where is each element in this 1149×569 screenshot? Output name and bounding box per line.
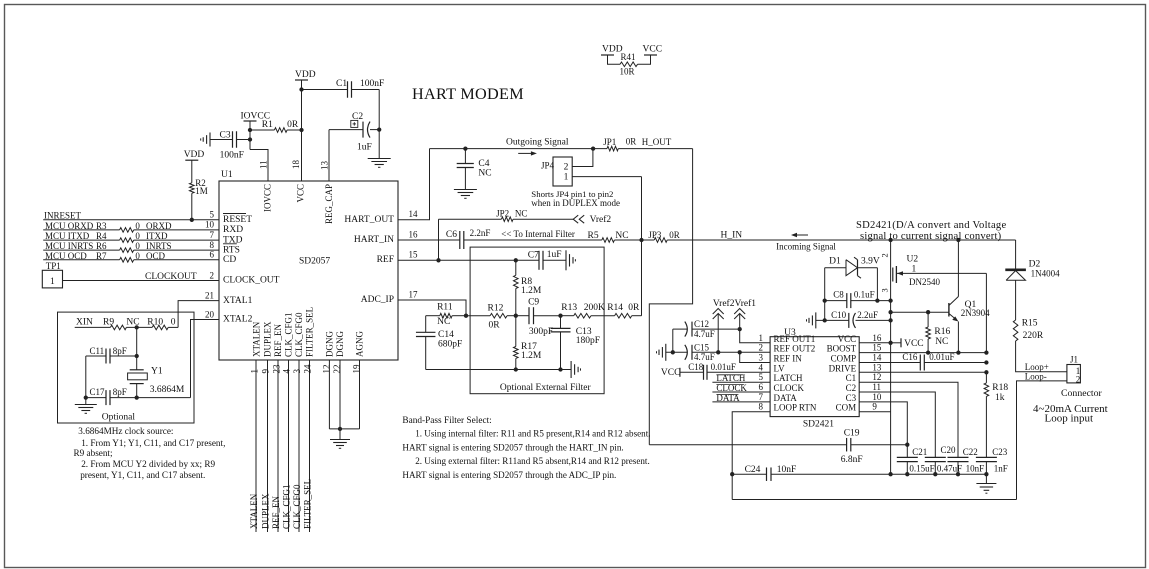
svg-text:REG_CAP: REG_CAP (324, 184, 334, 224)
svg-text:7: 7 (759, 392, 764, 402)
svg-text:2: 2 (1076, 375, 1081, 385)
svg-text:0R: 0R (669, 230, 680, 240)
svg-text:9: 9 (261, 369, 271, 374)
svg-text:DATA: DATA (774, 393, 798, 403)
svg-text:MCU OCD: MCU OCD (45, 251, 87, 261)
svg-text:when in DUPLEX mode: when in DUPLEX mode (531, 198, 620, 208)
svg-text:U2: U2 (907, 254, 919, 264)
svg-text:R16: R16 (934, 327, 950, 337)
svg-text:CLK_CFG0: CLK_CFG0 (292, 484, 302, 529)
svg-text:CD: CD (223, 255, 236, 265)
svg-text:1.2M: 1.2M (521, 286, 542, 296)
svg-text:MCU ORXD: MCU ORXD (45, 221, 94, 231)
svg-text:100nF: 100nF (360, 79, 384, 89)
svg-text:present, Y1, C11, and C17 abse: present, Y1, C11, and C17 absent. (80, 470, 205, 480)
svg-text:HART signal is entering SD2057: HART signal is entering SD2057 through t… (402, 442, 623, 452)
svg-text:ITXD: ITXD (146, 231, 168, 241)
svg-text:DGNG: DGNG (325, 331, 335, 357)
svg-text:C11: C11 (90, 346, 105, 356)
svg-text:0R: 0R (489, 320, 501, 330)
svg-text:2N3904: 2N3904 (961, 308, 990, 318)
svg-text:2. From MCU Y2 divided by xx;: 2. From MCU Y2 divided by xx; R9 (81, 459, 215, 469)
svg-text:R12: R12 (488, 304, 504, 314)
svg-text:CLOCK: CLOCK (774, 383, 805, 393)
svg-text:10: 10 (872, 392, 882, 402)
svg-text:DUPLEX: DUPLEX (263, 321, 273, 357)
svg-text:10: 10 (205, 220, 215, 230)
svg-text:C8: C8 (833, 289, 844, 299)
svg-text:200K: 200K (584, 303, 605, 313)
svg-text:0.01uF: 0.01uF (929, 352, 954, 362)
svg-text:2: 2 (759, 343, 764, 353)
svg-text:<< To Internal Filter: << To Internal Filter (501, 229, 575, 239)
svg-text:0.1uF: 0.1uF (854, 289, 875, 299)
svg-text:1uF: 1uF (547, 250, 562, 260)
svg-text:R7: R7 (96, 251, 107, 261)
svg-text:12: 12 (872, 372, 881, 382)
svg-text:8pF: 8pF (113, 346, 127, 356)
svg-text:14: 14 (409, 209, 419, 219)
svg-text:8: 8 (759, 402, 764, 412)
svg-text:CLK_CFG1: CLK_CFG1 (284, 312, 294, 357)
svg-text:R13: R13 (561, 303, 577, 313)
svg-text:H_IN: H_IN (721, 231, 743, 241)
svg-text:C20: C20 (941, 445, 957, 455)
svg-text:3: 3 (292, 369, 302, 374)
svg-text:18: 18 (291, 160, 301, 170)
svg-text:3: 3 (880, 288, 890, 292)
svg-text:C7: C7 (528, 250, 539, 260)
svg-text:3.9V: 3.9V (861, 257, 880, 267)
svg-text:REF OUT1: REF OUT1 (774, 334, 816, 344)
svg-text:C15: C15 (694, 342, 710, 352)
svg-text:HART signal is entering SD2057: HART signal is entering SD2057 through t… (402, 470, 616, 480)
svg-text:10R: 10R (620, 67, 635, 77)
svg-text:R15: R15 (1022, 319, 1038, 329)
svg-text:REF IN: REF IN (774, 354, 803, 364)
svg-text:R4: R4 (96, 231, 107, 241)
svg-text:100nF: 100nF (220, 151, 244, 161)
svg-text:10nF: 10nF (966, 463, 985, 473)
svg-text:SD2057: SD2057 (299, 257, 330, 267)
svg-text:XTALEN: XTALEN (249, 493, 259, 529)
svg-text:0.47uF: 0.47uF (937, 463, 962, 473)
svg-text:Loop-: Loop- (1025, 371, 1047, 381)
svg-text:NC: NC (437, 317, 450, 327)
svg-text:Vref2: Vref2 (590, 214, 612, 225)
svg-text:3: 3 (759, 353, 764, 363)
svg-text:NC: NC (615, 231, 628, 241)
svg-text:4: 4 (759, 362, 764, 372)
svg-text:signal to current signal conve: signal to current signal convert) (860, 231, 1002, 242)
svg-text:XTAL1: XTAL1 (223, 296, 253, 306)
svg-text:HART_IN: HART_IN (354, 235, 394, 245)
svg-text:0: 0 (135, 221, 140, 231)
svg-text:0: 0 (135, 231, 140, 241)
svg-text:XTAL2: XTAL2 (223, 315, 253, 325)
svg-text:6: 6 (210, 250, 215, 260)
svg-text:RESET: RESET (223, 215, 252, 225)
svg-text:JP3: JP3 (648, 230, 662, 240)
svg-text:1. Using internal filter: R11: 1. Using internal filter: R11 and R5 pre… (415, 429, 650, 439)
svg-text:0.15uF: 0.15uF (909, 463, 934, 473)
svg-text:Incoming Signal: Incoming Signal (776, 242, 836, 252)
svg-text:BOOST: BOOST (827, 344, 857, 354)
svg-text:HART MODEM: HART MODEM (412, 85, 524, 103)
svg-text:2: 2 (564, 163, 569, 173)
svg-text:1: 1 (50, 277, 55, 287)
svg-text:C19: C19 (844, 429, 860, 439)
svg-text:5: 5 (210, 210, 215, 220)
svg-text:ORXD: ORXD (146, 221, 172, 231)
svg-text:11: 11 (259, 160, 269, 169)
svg-text:REF_EN: REF_EN (271, 495, 281, 529)
svg-text:R5: R5 (588, 231, 599, 241)
svg-text:13: 13 (872, 362, 882, 372)
svg-text:LATCH: LATCH (774, 373, 804, 383)
svg-text:D1: D1 (829, 257, 841, 267)
svg-text:VCC: VCC (643, 45, 663, 55)
svg-text:1k: 1k (995, 393, 1005, 403)
svg-text:JP4: JP4 (541, 161, 555, 171)
svg-text:AGNG: AGNG (355, 331, 365, 357)
svg-text:HART_OUT: HART_OUT (344, 215, 394, 225)
svg-text:R10: R10 (147, 317, 163, 327)
svg-text:NC: NC (478, 169, 491, 179)
svg-text:SD2421(D/A convert and Voltage: SD2421(D/A convert and Voltage (856, 220, 1006, 231)
svg-text:R14: R14 (607, 303, 623, 313)
svg-text:1: 1 (250, 369, 260, 374)
svg-text:VCC: VCC (661, 368, 681, 378)
svg-text:8pF: 8pF (113, 387, 127, 397)
svg-text:4.7uF: 4.7uF (694, 352, 715, 362)
svg-text:H_OUT: H_OUT (642, 137, 672, 147)
svg-text:INRESET: INRESET (44, 211, 82, 221)
svg-text:FILTER_SEL: FILTER_SEL (303, 479, 313, 529)
svg-text:13: 13 (320, 161, 330, 171)
svg-text:1: 1 (912, 264, 917, 274)
svg-text:VDD: VDD (295, 70, 316, 80)
svg-text:C9: C9 (528, 297, 539, 307)
svg-text:1N4004: 1N4004 (1031, 269, 1060, 279)
svg-text:TP1: TP1 (46, 261, 61, 271)
svg-text:6: 6 (759, 382, 764, 392)
svg-text:C24: C24 (745, 465, 761, 475)
svg-text:LV: LV (774, 363, 786, 373)
svg-text:0: 0 (171, 317, 176, 327)
svg-text:4: 4 (282, 369, 292, 374)
svg-text:REF_EN: REF_EN (273, 323, 283, 357)
svg-text:J1: J1 (1070, 354, 1078, 364)
svg-text:2: 2 (210, 270, 215, 280)
svg-text:15: 15 (409, 250, 419, 260)
svg-text:REF: REF (377, 255, 394, 265)
svg-text:1: 1 (564, 173, 569, 183)
svg-text:680pF: 680pF (438, 339, 462, 349)
svg-text:CLK_CFG0: CLK_CFG0 (294, 312, 304, 357)
svg-text:C1: C1 (846, 373, 857, 383)
svg-text:1nF: 1nF (994, 463, 1008, 473)
svg-text:R1: R1 (262, 120, 273, 130)
svg-text:VCC: VCC (296, 184, 306, 203)
svg-text:R41: R41 (621, 52, 636, 62)
svg-text:4.7uF: 4.7uF (694, 329, 715, 339)
svg-text:NC: NC (935, 337, 948, 347)
svg-text:0: 0 (135, 251, 140, 261)
svg-text:1uF: 1uF (357, 143, 372, 153)
svg-text:7: 7 (210, 230, 215, 240)
svg-text:1: 1 (759, 333, 764, 343)
svg-text:180pF: 180pF (576, 336, 600, 346)
svg-text:C3: C3 (846, 393, 857, 403)
svg-text:C2: C2 (352, 112, 363, 122)
svg-text:JP2: JP2 (496, 209, 509, 219)
svg-text:C22: C22 (963, 447, 978, 457)
svg-text:11: 11 (872, 382, 881, 392)
svg-text:220R: 220R (1023, 331, 1044, 341)
svg-text:16: 16 (409, 229, 419, 239)
svg-text:LOOP RTN: LOOP RTN (774, 403, 817, 413)
svg-text:RXD: RXD (223, 225, 243, 235)
svg-text:C10: C10 (831, 310, 847, 320)
svg-text:MCU INRTS: MCU INRTS (45, 241, 93, 251)
svg-text:0R: 0R (287, 120, 299, 130)
svg-text:SD2421: SD2421 (803, 420, 834, 430)
svg-text:XIN: XIN (76, 317, 93, 327)
svg-text:C6: C6 (446, 230, 457, 240)
svg-text:23: 23 (272, 364, 282, 374)
svg-text:5: 5 (759, 372, 764, 382)
svg-text:20: 20 (205, 309, 215, 319)
svg-text:DUPLEX: DUPLEX (261, 493, 271, 529)
svg-text:R6: R6 (96, 241, 107, 251)
svg-text:2. Using external filter: R11a: 2. Using external filter: R11and R5 abse… (415, 456, 650, 466)
svg-text:15: 15 (872, 343, 882, 353)
svg-text:2: 2 (880, 253, 890, 257)
svg-text:8: 8 (210, 240, 215, 250)
svg-text:Optional External Filter: Optional External Filter (500, 383, 592, 393)
svg-text:C17: C17 (90, 387, 106, 397)
svg-text:IOVCC: IOVCC (263, 184, 273, 212)
svg-text:C21: C21 (912, 447, 927, 457)
svg-text:2.2uF: 2.2uF (857, 310, 878, 320)
svg-text:RTS: RTS (223, 245, 240, 255)
svg-text:R11: R11 (437, 303, 453, 313)
svg-text:R9 absent;: R9 absent; (74, 448, 113, 458)
svg-text:14: 14 (872, 353, 882, 363)
svg-text:10nF: 10nF (777, 465, 797, 475)
svg-text:ADC_IP: ADC_IP (361, 295, 394, 305)
svg-text:0.01uF: 0.01uF (711, 362, 736, 372)
svg-text:INRTS: INRTS (146, 241, 171, 251)
svg-text:C4: C4 (478, 159, 489, 169)
svg-text:C18: C18 (688, 362, 704, 372)
svg-text:JP1: JP1 (603, 137, 616, 147)
svg-text:XTALEN: XTALEN (252, 321, 262, 357)
svg-text:24: 24 (303, 364, 313, 374)
svg-text:1.2M: 1.2M (521, 351, 542, 361)
svg-text:C16: C16 (902, 352, 918, 362)
svg-text:Optional: Optional (102, 413, 136, 423)
svg-text:Outgoing Signal: Outgoing Signal (506, 138, 569, 148)
svg-text:0R: 0R (626, 136, 637, 146)
svg-text:2.2nF: 2.2nF (470, 228, 491, 238)
svg-text:C3: C3 (220, 130, 231, 140)
svg-text:CLOCKOUT: CLOCKOUT (145, 272, 197, 282)
svg-text:VDD: VDD (184, 150, 205, 160)
svg-text:R9: R9 (103, 317, 114, 327)
svg-text:CLOCK_OUT: CLOCK_OUT (223, 276, 280, 286)
svg-text:COM: COM (836, 403, 857, 413)
svg-text:12: 12 (322, 365, 332, 374)
svg-text:MCU ITXD: MCU ITXD (45, 231, 90, 241)
svg-text:9: 9 (872, 402, 877, 412)
svg-text:DRIVE: DRIVE (829, 363, 857, 373)
svg-text:OCD: OCD (146, 251, 166, 261)
svg-text:C1: C1 (336, 79, 347, 89)
svg-text:COMP: COMP (831, 354, 857, 364)
svg-text:1. From Y1; Y1, C11, and C17: 1. From Y1; Y1, C11, and C17 present, (81, 438, 225, 448)
svg-text:300pF: 300pF (529, 327, 553, 337)
svg-text:VCC: VCC (838, 334, 857, 344)
svg-text:Y1: Y1 (151, 367, 163, 377)
svg-text:3.6864MHz clock source:: 3.6864MHz clock source: (78, 426, 173, 436)
svg-text:17: 17 (409, 289, 419, 299)
svg-text:C2: C2 (846, 383, 857, 393)
svg-text:R18: R18 (992, 383, 1008, 393)
svg-text:NC: NC (515, 209, 528, 219)
svg-text:NC: NC (126, 317, 139, 327)
svg-text:CLK_CFG1: CLK_CFG1 (282, 484, 292, 529)
svg-text:Vref2Vref1: Vref2Vref1 (713, 298, 756, 309)
svg-text:0R: 0R (628, 303, 640, 313)
svg-text:FILTER_SEL: FILTER_SEL (305, 307, 315, 357)
svg-text:C12: C12 (694, 319, 709, 329)
svg-text:3.6864M: 3.6864M (150, 385, 185, 395)
svg-text:0: 0 (135, 241, 140, 251)
svg-text:Connector: Connector (1061, 388, 1103, 399)
svg-text:U1: U1 (221, 170, 233, 180)
svg-text:6.8nF: 6.8nF (841, 455, 863, 465)
svg-text:1M: 1M (195, 186, 208, 196)
svg-text:VCC: VCC (904, 339, 924, 349)
svg-text:C23: C23 (992, 447, 1008, 457)
svg-text:R3: R3 (96, 221, 107, 231)
svg-text:DGNG: DGNG (335, 331, 345, 357)
svg-text:Loop input: Loop input (1045, 413, 1094, 425)
svg-text:REF OUT2: REF OUT2 (774, 344, 816, 354)
svg-text:DN2540: DN2540 (909, 277, 940, 287)
svg-text:Band-Pass Filter Select:: Band-Pass Filter Select: (402, 416, 491, 426)
svg-text:21: 21 (205, 290, 214, 300)
svg-text:16: 16 (872, 333, 882, 343)
